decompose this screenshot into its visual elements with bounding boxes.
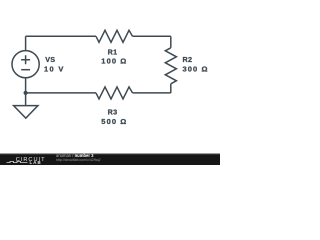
resistor R3 xyxy=(96,87,133,99)
svg-text:R3: R3 xyxy=(108,108,118,117)
voltage source minus sign xyxy=(21,69,30,71)
wire right vertical bottom stub xyxy=(170,84,172,93)
svg-text:R2: R2 xyxy=(183,55,193,64)
wire top rail left segment xyxy=(26,35,96,37)
svg-text:10 V: 10 V xyxy=(44,65,65,74)
svg-text:R1: R1 xyxy=(108,47,118,56)
footer bar xyxy=(0,154,220,166)
svg-text:http://circuitlab.com/c/42fhq2: http://circuitlab.com/c/42fhq2 xyxy=(56,158,101,162)
svg-text:100 Ω: 100 Ω xyxy=(101,56,127,65)
wire bottom rail right segment xyxy=(133,92,171,94)
logo waveform xyxy=(7,161,28,162)
ground xyxy=(14,106,38,119)
voltage source VS body xyxy=(12,51,39,78)
node junction dot xyxy=(24,91,28,95)
svg-text:500 Ω: 500 Ω xyxy=(101,117,127,126)
voltage source plus sign xyxy=(21,55,30,64)
wire top-left vertical from source to top rail xyxy=(25,36,27,50)
wire junction to ground xyxy=(25,93,27,106)
svg-text:300 Ω: 300 Ω xyxy=(183,65,209,74)
wire right vertical top stub xyxy=(170,36,172,48)
resistor R1 xyxy=(96,30,133,42)
wire bottom rail left segment xyxy=(26,92,96,94)
wire source bottom to junction xyxy=(25,78,27,93)
svg-text:LAB: LAB xyxy=(30,160,42,165)
wire top rail right segment xyxy=(133,35,171,37)
resistor R2 xyxy=(165,48,176,84)
svg-text:VS: VS xyxy=(45,55,55,64)
